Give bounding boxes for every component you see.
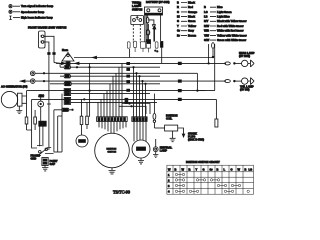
svg-text:FRONT BRAKE LIGHT SWITCH: FRONT BRAKE LIGHT SWITCH xyxy=(28,26,66,30)
svg-text:Y/W: Y/W xyxy=(204,33,209,37)
svg-text:Brown: Brown xyxy=(188,33,196,37)
svg-text:Gr: Gr xyxy=(177,29,180,33)
svg-text:Yellow with White tracer: Yellow with White tracer xyxy=(217,33,247,37)
svg-text:Light Green: Light Green xyxy=(217,10,232,14)
svg-text:Orange: Orange xyxy=(188,10,198,14)
svg-text:R: R xyxy=(177,5,179,9)
svg-text:(6V 3W): (6V 3W) xyxy=(240,88,250,92)
svg-text:LB: LB xyxy=(204,15,208,19)
svg-text:G: G xyxy=(203,167,205,171)
svg-text:(6V 25W): (6V 25W) xyxy=(239,54,250,58)
svg-text:High beam indicator lamp: High beam indicator lamp xyxy=(21,16,53,20)
svg-text:IGNITION SWITCH CIRCUIT: IGNITION SWITCH CIRCUIT xyxy=(186,160,220,164)
svg-text:Gray: Gray xyxy=(188,29,194,33)
svg-text:Gr: Gr xyxy=(210,167,213,171)
svg-text:Black with Yellow tracer: Black with Yellow tracer xyxy=(217,19,247,23)
svg-text:IGNITION: IGNITION xyxy=(107,149,117,151)
svg-text:O: O xyxy=(231,167,233,171)
svg-text:Br: Br xyxy=(177,33,180,37)
svg-text:G: G xyxy=(177,19,179,23)
svg-text:B: B xyxy=(245,167,247,171)
svg-text:TS/TC-90: TS/TC-90 xyxy=(113,190,130,195)
svg-text:B: B xyxy=(177,0,179,4)
svg-text:BATTERY (6V 4AH): BATTERY (6V 4AH) xyxy=(146,0,170,4)
svg-text:SWITCH: SWITCH xyxy=(132,8,142,12)
svg-text:B/Y: B/Y xyxy=(204,19,209,23)
svg-text:Black: Black xyxy=(188,15,195,19)
svg-text:Horn: Horn xyxy=(62,48,68,52)
svg-text:Black: Black xyxy=(188,0,195,4)
svg-text:AC GENERATOR (6V): AC GENERATOR (6V) xyxy=(1,85,28,89)
svg-text:Yellow: Yellow xyxy=(188,24,197,28)
svg-text:R: R xyxy=(189,167,191,171)
svg-text:W/B: W/B xyxy=(204,29,209,33)
svg-text:O: O xyxy=(177,10,179,14)
svg-text:(NGK B-7HS): (NGK B-7HS) xyxy=(188,138,204,142)
svg-text:Y: Y xyxy=(177,24,179,28)
svg-text:Blue: Blue xyxy=(217,5,223,9)
svg-text:SWITCH: SWITCH xyxy=(108,152,117,154)
svg-text:B: B xyxy=(175,167,177,171)
svg-text:LAMP: LAMP xyxy=(160,149,168,153)
svg-text:Green with White tracer: Green with White tracer xyxy=(217,38,246,42)
svg-text:Green: Green xyxy=(188,19,196,23)
svg-text:COIL: COIL xyxy=(166,117,173,121)
svg-text:GAP: GAP xyxy=(50,162,56,166)
svg-text:B: B xyxy=(217,167,219,171)
svg-text:Speedometer lamp: Speedometer lamp xyxy=(21,10,45,14)
svg-text:Y: Y xyxy=(196,167,198,171)
svg-text:LG: LG xyxy=(249,167,253,171)
svg-text:Red: Red xyxy=(188,5,193,9)
svg-text:R/W: R/W xyxy=(204,24,210,28)
svg-text:GND: GND xyxy=(31,157,37,161)
svg-text:Turn signal indicator lamp: Turn signal indicator lamp xyxy=(21,4,54,8)
svg-text:G/W: G/W xyxy=(204,38,210,42)
svg-text:Bl: Bl xyxy=(177,15,180,19)
svg-text:White with Red tracer: White with Red tracer xyxy=(217,29,244,33)
svg-text:LG: LG xyxy=(204,10,208,14)
svg-text:Light Blue: Light Blue xyxy=(217,15,230,19)
svg-text:B: B xyxy=(204,5,206,9)
svg-text:Red with White tracer: Red with White tracer xyxy=(217,24,244,28)
